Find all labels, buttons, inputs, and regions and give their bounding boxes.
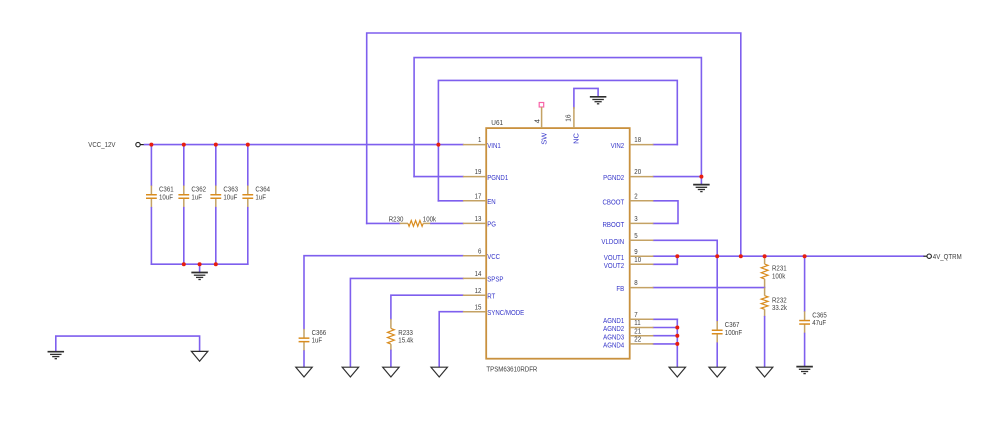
wire C365 to ground (804, 334, 806, 367)
port VCC_12V (88, 140, 144, 149)
junction ground stub (198, 262, 202, 266)
svg-text:1uF: 1uF (312, 336, 323, 345)
svg-text:3: 3 (634, 214, 637, 223)
svg-text:U61: U61 (491, 118, 503, 127)
junction C363 top (214, 143, 218, 147)
svg-text:VOUT2: VOUT2 (604, 261, 624, 270)
wire C362 to ground bus (183, 208, 185, 265)
svg-text:SW: SW (539, 132, 548, 145)
svg-text:19: 19 (475, 167, 482, 176)
capacitor C361 (146, 185, 174, 208)
pin 6 VCC (463, 246, 501, 261)
ground triangle C367 (709, 367, 725, 377)
ground earth under capacitor bank (191, 273, 208, 280)
wire PGND2 ground stub (700, 177, 702, 185)
junction AGND2 (675, 326, 679, 330)
lead R231 top (764, 256, 766, 264)
pin 17 EN (463, 191, 496, 206)
wire NC to ground (574, 88, 598, 108)
resistor R232 (761, 295, 787, 312)
junction AGND3 (675, 334, 679, 338)
svg-text:18: 18 (634, 135, 641, 144)
wire AGND2 (653, 327, 677, 329)
junction C362 top (182, 143, 186, 147)
lead R232 bottom (764, 309, 766, 316)
resistor R231 (761, 264, 786, 281)
svg-text:5: 5 (634, 231, 637, 240)
capacitor C362 (178, 185, 206, 208)
svg-text:47uF: 47uF (812, 318, 826, 327)
wire EN to pin (438, 200, 463, 202)
wire C364 to ground bus (247, 208, 249, 265)
svg-text:33.2k: 33.2k (772, 303, 787, 312)
pin 16 NC (564, 107, 581, 144)
svg-text:NC: NC (572, 132, 581, 143)
svg-text:R230: R230 (389, 214, 404, 223)
wire VIN down to C361 (150, 145, 152, 186)
svg-text:16: 16 (564, 115, 573, 122)
wire ground stub (199, 264, 201, 272)
pin 3 RBOOT (602, 214, 653, 229)
wire R230 to pin PG (431, 222, 463, 224)
ground triangle R233 (383, 367, 399, 377)
wire VCC to C366 (304, 256, 463, 329)
svg-text:SYNC/MODE: SYNC/MODE (487, 308, 524, 317)
junction R231 (763, 254, 767, 258)
svg-text:VIN1: VIN1 (487, 141, 501, 150)
wire VIN down to C362 (183, 145, 185, 186)
wire AGND3 (653, 335, 677, 337)
pin 5 VLDOIN (601, 231, 653, 246)
wire SYNC/MODE to ground (439, 312, 463, 368)
wire ground bus under capacitor bank (151, 263, 247, 265)
svg-text:PGND2: PGND2 (603, 173, 624, 182)
svg-text:10: 10 (634, 255, 641, 264)
wire SPSP to ground (350, 278, 463, 367)
wire R232 to ground (764, 317, 766, 368)
ground earth NC (590, 97, 607, 104)
wire AGND1 (653, 318, 677, 320)
pin 11 AGND2 (603, 318, 653, 333)
pin 8 FB (616, 278, 653, 293)
svg-text:4V_QTRM: 4V_QTRM (933, 252, 962, 261)
junction C363 bottom (214, 262, 218, 266)
svg-text:1uF: 1uF (191, 192, 202, 201)
pin 4 SW (532, 107, 548, 145)
capacitor C363 (210, 185, 238, 208)
lead R231 bottom (764, 279, 766, 288)
port 4V_QTRM (924, 252, 962, 261)
wire PG loop (outer) (367, 33, 741, 256)
svg-text:PG: PG (487, 220, 496, 229)
wire PG to R230 (367, 222, 400, 224)
junction AGND4 (675, 342, 679, 346)
svg-text:2: 2 (634, 191, 637, 200)
wire C363 to ground bus (215, 208, 217, 265)
wire AGND4 (653, 343, 677, 345)
wire R233 to ground (390, 350, 392, 367)
wire VIN down to C363 (215, 145, 217, 186)
capacitor C364 (242, 185, 270, 208)
pin 12 RT (463, 286, 496, 301)
svg-text:VCC_12V: VCC_12V (88, 140, 115, 149)
svg-text:VCC: VCC (487, 252, 500, 261)
svg-text:TPSM63610RDFR: TPSM63610RDFR (486, 365, 537, 374)
no-connect marker on SW pin (539, 103, 544, 108)
pin 19 PGND1 (463, 167, 508, 182)
pin 2 CBOOT (602, 191, 653, 206)
lead R232 top (764, 288, 766, 296)
svg-text:100nF: 100nF (725, 328, 743, 337)
junction C362 bottom (182, 262, 186, 266)
pin 15 SYNC/MODE (463, 302, 524, 317)
svg-text:10uF: 10uF (223, 192, 237, 201)
svg-text:VIN2: VIN2 (611, 141, 625, 150)
junction C361 top (149, 143, 153, 147)
wire VCC_12V to pin VIN1 (145, 144, 463, 146)
wire VOUT2 tie (653, 256, 677, 264)
svg-text:PGND1: PGND1 (487, 173, 508, 182)
wire C361 to ground bus (150, 208, 152, 265)
pin 7 AGND1 (603, 310, 653, 325)
resistor R233 (388, 328, 414, 345)
wire RT to R233 (391, 295, 463, 319)
svg-text:SPSP: SPSP (487, 275, 503, 284)
ground triangle R232 (756, 367, 772, 377)
capacitor C365 (799, 310, 827, 333)
ground triangle SPSP (342, 367, 358, 377)
pin 9 VOUT1 (604, 247, 654, 262)
junction PGND2 ground (699, 175, 703, 179)
svg-text:17: 17 (475, 191, 482, 200)
junction PG pull-up (739, 254, 743, 258)
pin 18 VIN2 (611, 135, 654, 150)
ground triangle SYNC/MODE (431, 367, 447, 377)
wire VIN down to C364 (247, 145, 249, 186)
svg-text:RBOOT: RBOOT (602, 220, 624, 229)
wire C366 to ground (303, 351, 305, 367)
pin 22 AGND4 (603, 335, 653, 350)
junction VOUT2 tie (675, 254, 679, 258)
lead R233 top (390, 319, 392, 329)
svg-text:EN: EN (487, 197, 495, 206)
svg-text:100k: 100k (772, 271, 785, 280)
ground earth bottom left (48, 352, 65, 359)
lead R233 bottom (390, 344, 392, 350)
wire VLDOIN to VOUT net (653, 240, 717, 256)
svg-text:100k: 100k (423, 214, 436, 223)
ground earth C365 (796, 367, 813, 374)
pin 14 SPSP (463, 269, 504, 284)
svg-text:RT: RT (487, 292, 495, 301)
junction C365 (803, 254, 807, 258)
svg-text:15.4k: 15.4k (398, 336, 413, 345)
pin 10 VOUT2 (604, 255, 654, 270)
wire VOUT net down to C367 (716, 256, 718, 321)
wire VOUT1 to port 4V_QTRM (653, 255, 923, 257)
capacitor C366 (299, 328, 327, 351)
pin 13 PG (463, 214, 496, 229)
ground triangle C366 (296, 367, 312, 377)
svg-text:22: 22 (634, 335, 641, 344)
wire VOUT to C365 (804, 256, 806, 311)
svg-text:4: 4 (532, 119, 541, 123)
wire EN-VIN2 loop (438, 80, 677, 200)
wire ground tie bottom left (56, 336, 200, 351)
IC U61 body (TPSM63610RDFR power module) (486, 128, 630, 359)
svg-text:6: 6 (478, 246, 481, 255)
svg-text:1: 1 (478, 135, 481, 144)
svg-text:12: 12 (475, 286, 482, 295)
junction C364 top (246, 143, 250, 147)
ground earth PGND2 (693, 185, 710, 192)
svg-text:15: 15 (475, 302, 482, 311)
svg-text:10uF: 10uF (159, 192, 173, 201)
wire PGND1 to pin (414, 176, 463, 178)
svg-text:20: 20 (634, 167, 641, 176)
svg-text:AGND4: AGND4 (603, 341, 624, 350)
svg-text:14: 14 (475, 269, 482, 278)
capacitor C367 (712, 320, 743, 343)
pin 21 AGND3 (603, 326, 653, 341)
pin 20 PGND2 (603, 167, 653, 182)
wire CBOOT to RBOOT (653, 201, 678, 224)
resistor R230 (389, 214, 436, 226)
svg-text:VLDOIN: VLDOIN (601, 237, 624, 246)
svg-text:CBOOT: CBOOT (602, 197, 624, 206)
ground triangle AGND (669, 367, 685, 377)
ground triangle bottom left (191, 351, 207, 361)
wire PGND1 loop (414, 58, 701, 177)
junction EN loop on VIN wire (436, 143, 440, 147)
wire PGND2 to pin (653, 176, 701, 178)
svg-text:1uF: 1uF (255, 192, 266, 201)
junction VLDOIN (715, 254, 719, 258)
svg-text:13: 13 (475, 214, 482, 223)
wire FB to divider (653, 287, 764, 289)
svg-text:FB: FB (616, 284, 624, 293)
svg-text:8: 8 (634, 278, 637, 287)
wire VIN2 to pin (653, 144, 677, 146)
wire AGND bus down (676, 319, 678, 367)
pin 1 VIN1 (463, 135, 501, 150)
wire C367 to ground (716, 343, 718, 367)
